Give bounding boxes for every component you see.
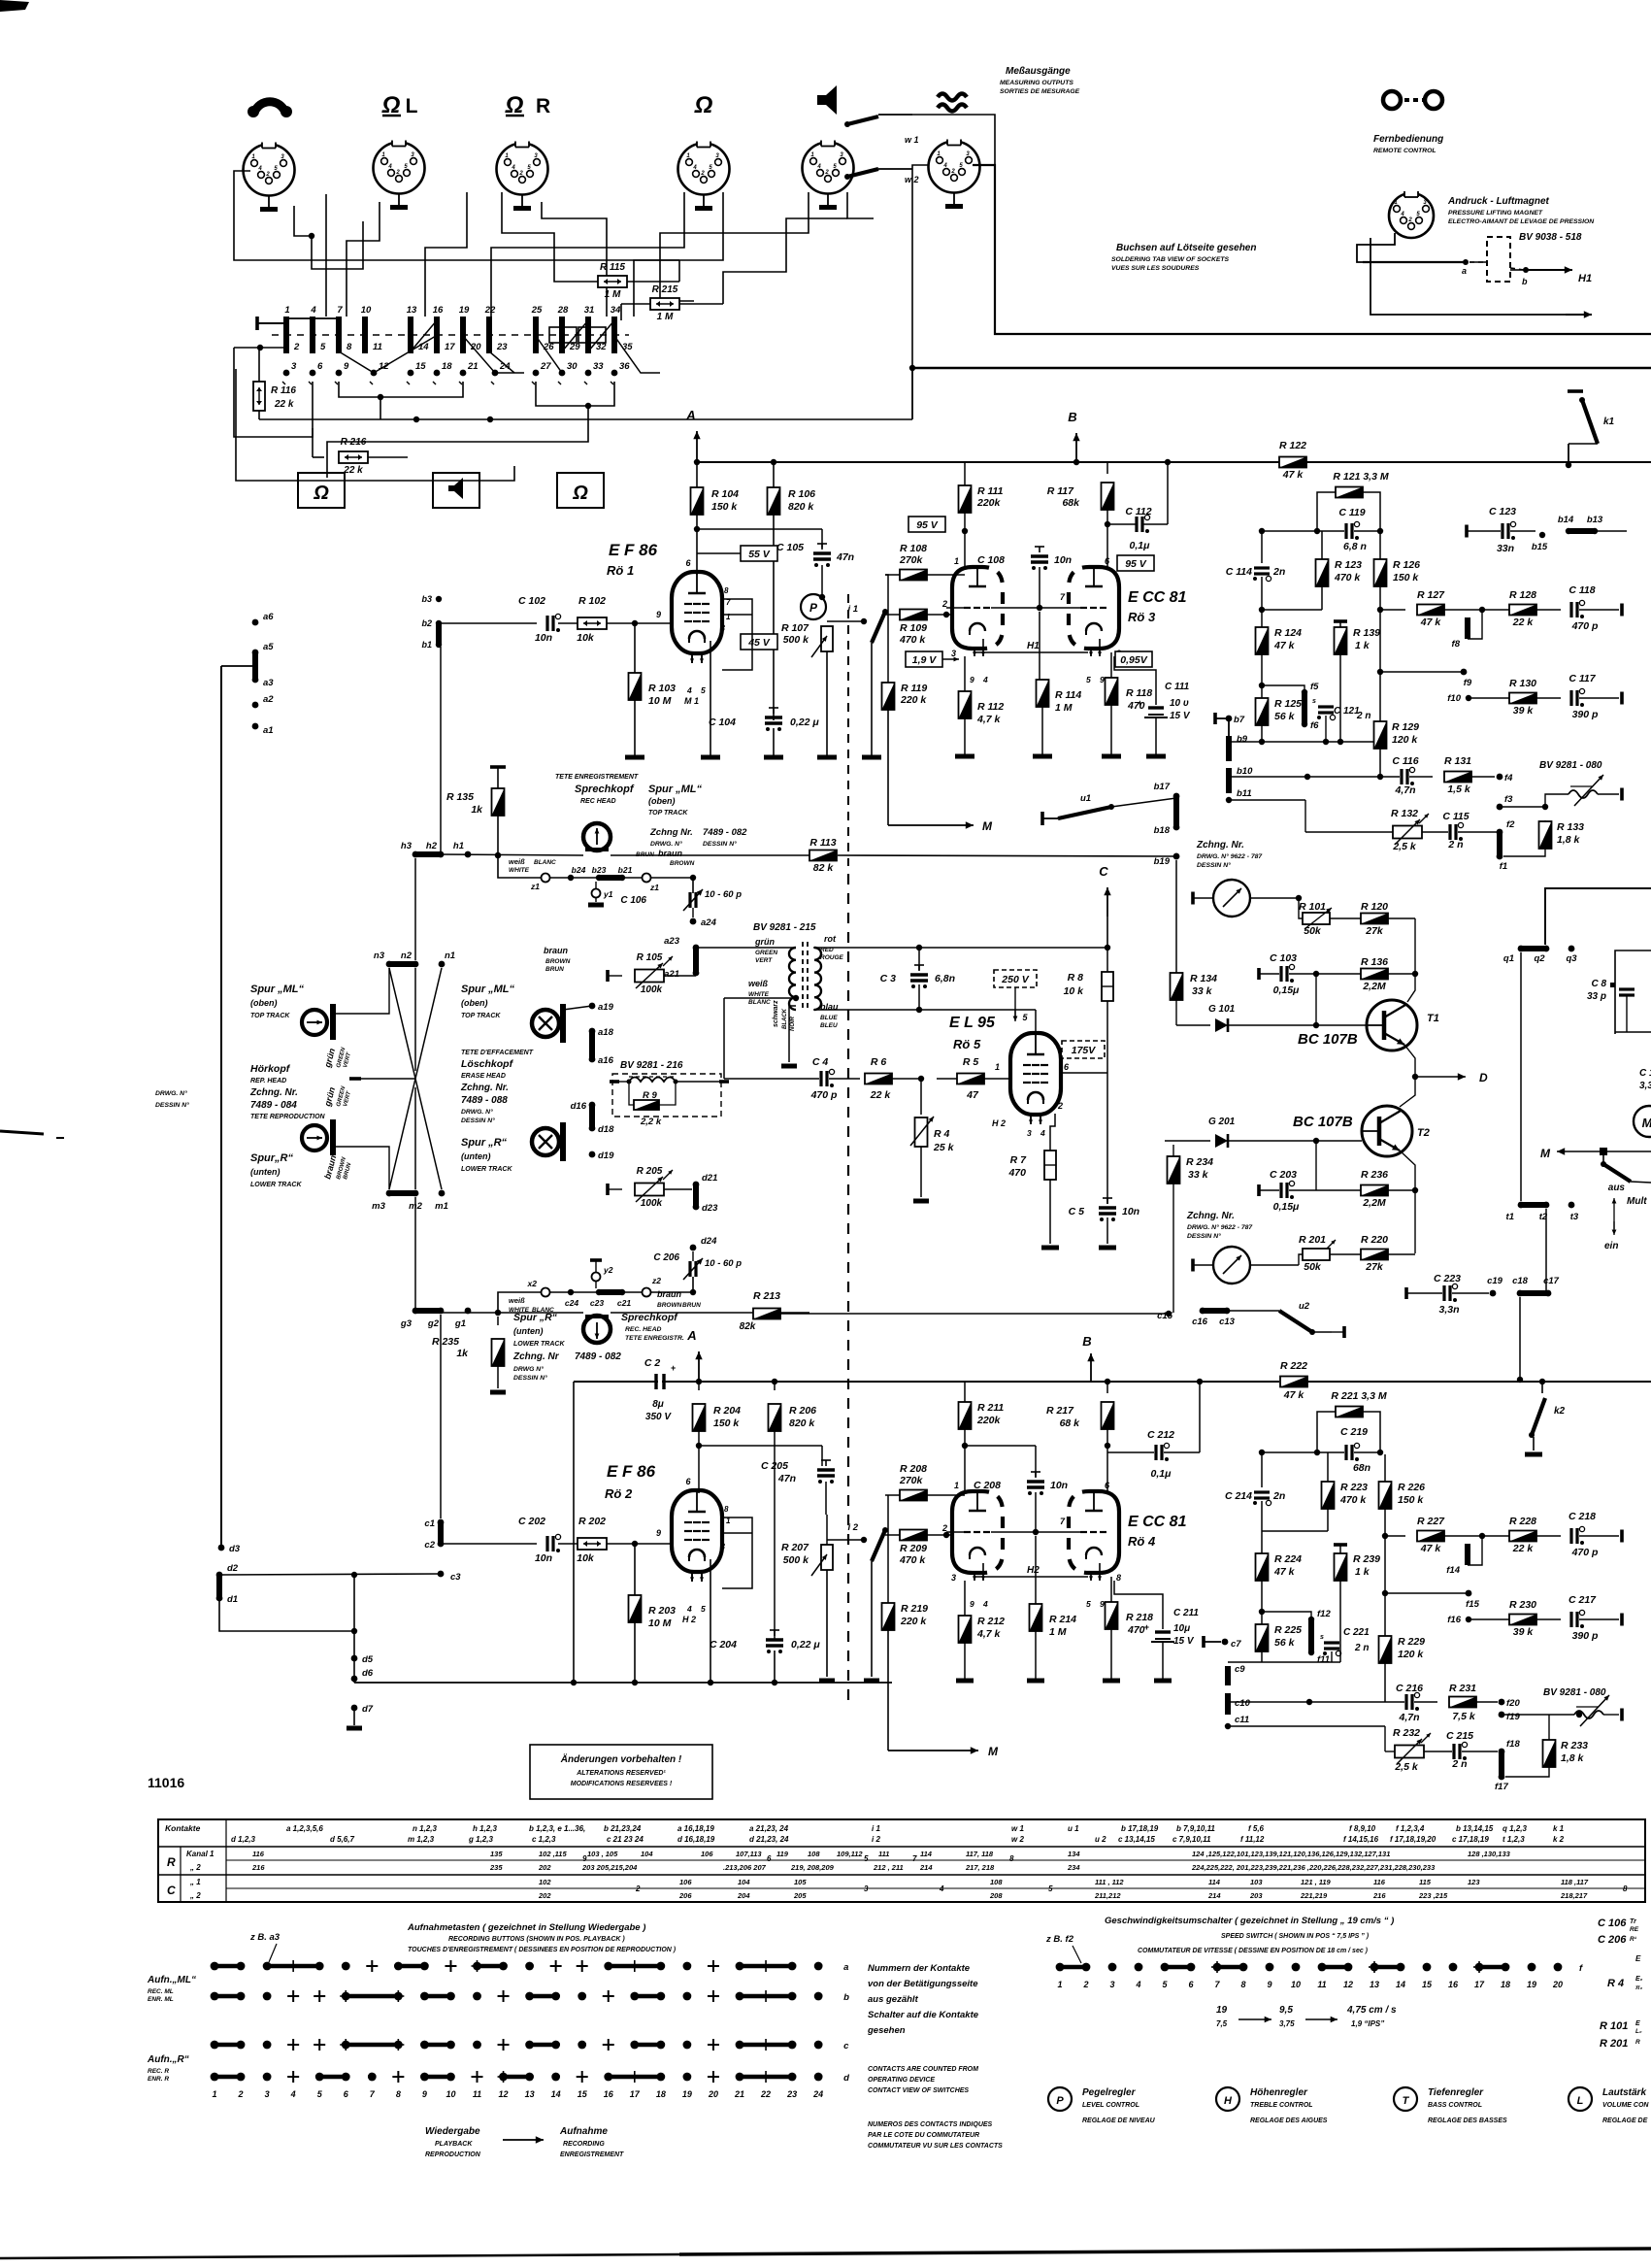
svg-text:R 120: R 120: [1361, 901, 1388, 913]
resistor R218 470: [1110, 1577, 1112, 1604]
bus anode supply lower: [574, 1381, 1279, 1383]
resistor R123 470k: [1316, 559, 1329, 586]
legend L Lautstaerke: [1568, 2087, 1592, 2111]
svg-text:E L 95: E L 95: [949, 1015, 996, 1031]
wire R233 to f17: [1505, 1767, 1549, 1777]
capacitor C3 6.8n: [918, 965, 920, 971]
svg-text:2,5 k: 2,5 k: [1392, 841, 1417, 852]
wire C2 left to vertical: [573, 1382, 575, 1683]
svg-text:28: 28: [557, 305, 569, 316]
svg-text:R 215: R 215: [652, 284, 678, 295]
svg-text:10k: 10k: [577, 632, 595, 644]
matrix contact 3: [283, 370, 290, 377]
svg-text:470 k: 470 k: [1339, 1494, 1367, 1506]
terminal b2: [436, 620, 442, 626]
svg-text:C 114: C 114: [1226, 566, 1252, 578]
svg-text:(oben): (oben): [461, 998, 488, 1008]
matrix crossing wires: [339, 351, 374, 373]
svg-text:R 212: R 212: [977, 1616, 1005, 1627]
svg-text:b3: b3: [421, 594, 432, 604]
svg-text:11: 11: [1317, 1980, 1326, 1989]
svg-text:15 V: 15 V: [1173, 1636, 1195, 1647]
svg-text:E CC 81: E CC 81: [1128, 1514, 1187, 1530]
resistor R229 120k: [1379, 1636, 1392, 1663]
svg-text:G 101: G 101: [1208, 1004, 1236, 1015]
wire C4 left net: [723, 998, 725, 1079]
svg-text:R 216: R 216: [341, 437, 367, 448]
svg-text:LOWER TRACK: LOWER TRACK: [513, 1341, 565, 1348]
svg-text:C 203: C 203: [1270, 1169, 1297, 1181]
svg-text:BROWN: BROWN: [670, 860, 695, 867]
svg-text:10μ: 10μ: [1173, 1623, 1190, 1634]
svg-text:1 k: 1 k: [1355, 640, 1370, 651]
svg-text:R 129: R 129: [1392, 721, 1419, 733]
svg-text:3: 3: [720, 623, 725, 633]
wire V3b cathode to C111: [1114, 656, 1156, 680]
terminal f6: [1302, 721, 1307, 727]
resistor R116 22k: [253, 382, 265, 411]
terminal a18: [589, 1028, 596, 1035]
svg-text:b: b: [843, 1992, 849, 2003]
svg-text:5: 5: [1086, 675, 1091, 684]
wire R211 node to C208: [965, 1445, 1036, 1447]
wire lower head line: [442, 1312, 583, 1314]
contact table frame: [158, 1819, 1645, 1902]
svg-text:h3: h3: [401, 841, 413, 851]
svg-text:u 1: u 1: [1068, 1824, 1079, 1833]
svg-text:7489 - 088: 7489 - 088: [461, 1095, 508, 1106]
wire w to mains bus: [912, 115, 995, 165]
R9 box terminals: [610, 1080, 619, 1084]
DIN socket remote control: [1389, 193, 1434, 238]
svg-text:2: 2: [1057, 1101, 1063, 1111]
svg-text:BLANC: BLANC: [748, 999, 771, 1006]
svg-text:f 11,12: f 11,12: [1240, 1835, 1265, 1844]
svg-text:R 214: R 214: [1049, 1614, 1076, 1625]
svg-text:REMOTE CONTROL: REMOTE CONTROL: [1373, 148, 1436, 154]
terminal a6: [252, 619, 259, 626]
svg-text:R 211: R 211: [977, 1402, 1004, 1414]
svg-text:2n: 2n: [1272, 566, 1285, 578]
svg-text:DRWG. N°: DRWG. N°: [461, 1108, 493, 1116]
terminal c19: [1490, 1290, 1497, 1297]
svg-text:2,2M: 2,2M: [1362, 1197, 1386, 1209]
svg-text:22 k: 22 k: [274, 399, 294, 410]
resistor R225 56k: [1256, 1624, 1269, 1651]
svg-text:9: 9: [1267, 1980, 1271, 1989]
icon telephone (TA input): [254, 102, 285, 113]
svg-text:C 206: C 206: [653, 1252, 679, 1263]
svg-text:R 204: R 204: [713, 1405, 741, 1417]
matrix contact pair 28/29: [559, 317, 565, 336]
svg-text:50k: 50k: [1304, 925, 1322, 937]
wire cathode V1: [710, 641, 711, 756]
svg-text:R 107: R 107: [781, 622, 809, 634]
potentiometer R105 100k: [606, 970, 610, 982]
icon box hp: [298, 473, 345, 508]
svg-text:R: R: [536, 95, 550, 117]
svg-text:b24: b24: [572, 865, 586, 875]
svg-text:150 k: 150 k: [1398, 1494, 1424, 1506]
svg-text:Aufn.„R“: Aufn.„R“: [147, 2054, 189, 2065]
svg-text:25: 25: [531, 305, 543, 316]
svg-text:REC. HEAD: REC. HEAD: [625, 1326, 661, 1333]
DIN socket RR: [497, 144, 548, 195]
svg-text:C 106: C 106: [620, 895, 646, 906]
svg-text:R 122: R 122: [1279, 440, 1306, 451]
svg-text:h1: h1: [453, 841, 464, 851]
svg-text:470 k: 470 k: [1334, 572, 1361, 584]
wire head line upper: [441, 854, 583, 855]
svg-text:33 k: 33 k: [1192, 985, 1213, 997]
svg-text:175V: 175V: [1072, 1045, 1097, 1056]
terminal c11: [1225, 1723, 1231, 1729]
svg-text:aus gezählt: aus gezählt: [868, 1994, 919, 2005]
terminal f5: [1302, 689, 1307, 695]
svg-text:R 230: R 230: [1509, 1599, 1536, 1611]
svg-text:R 114: R 114: [1055, 689, 1081, 701]
main horizontal bus upper: [912, 367, 1651, 369]
svg-text:22 k: 22 k: [1512, 617, 1535, 628]
svg-text:2: 2: [824, 170, 829, 176]
svg-text:R 231: R 231: [1449, 1683, 1476, 1694]
svg-text:Kontakte: Kontakte: [165, 1823, 201, 1833]
matrix contact 33: [585, 370, 592, 377]
svg-text:k1: k1: [1603, 417, 1615, 427]
svg-text:C: C: [167, 1884, 176, 1897]
svg-text:7489 - 082: 7489 - 082: [703, 827, 747, 838]
svg-text:214: 214: [1207, 1891, 1221, 1900]
svg-text:c16: c16: [1192, 1317, 1208, 1327]
svg-text:16: 16: [604, 2089, 614, 2099]
contact row b: [215, 1994, 241, 1999]
svg-text:4: 4: [1400, 212, 1404, 217]
svg-text:212 , 211: 212 , 211: [873, 1863, 904, 1872]
resistor R118 470: [1110, 652, 1112, 680]
ground C5: [1099, 1246, 1116, 1251]
terminal mid T: [349, 1077, 361, 1081]
svg-text:a 21,23, 24: a 21,23, 24: [749, 1824, 789, 1833]
terminal q1 q2 q3: [1518, 946, 1525, 952]
terminal n1: [439, 961, 446, 968]
terminal b1: [436, 642, 442, 648]
svg-text:DESSIN N°: DESSIN N°: [703, 840, 737, 848]
ground C211: [1154, 1679, 1172, 1684]
svg-text:Ω: Ω: [572, 483, 588, 504]
svg-text:BLACK: BLACK: [782, 1008, 788, 1029]
svg-text:2: 2: [950, 169, 955, 175]
wire c18 down to lower bus: [1519, 1297, 1521, 1380]
svg-text:braun: braun: [657, 1289, 682, 1299]
wire C112 up to bus: [1167, 462, 1169, 524]
wire between triodes: [991, 607, 1080, 609]
svg-text:C 211: C 211: [1173, 1608, 1199, 1618]
svg-text:BV 9281 - 080: BV 9281 - 080: [1539, 760, 1602, 771]
svg-text:47 k: 47 k: [1273, 1566, 1296, 1578]
svg-text:Zchng. Nr.: Zchng. Nr.: [460, 1083, 509, 1093]
svg-text:M: M: [1540, 1147, 1551, 1160]
legend T Tiefenregler: [1394, 2087, 1417, 2111]
svg-text:Sprechkopf: Sprechkopf: [575, 784, 635, 795]
wire t2 down to c17: [1545, 1209, 1547, 1293]
matrix contact pair 34/35: [611, 317, 617, 336]
svg-text:b17: b17: [1154, 782, 1171, 792]
svg-text:NUMEROS DES CONTACTS INDIQU: NUMEROS DES CONTACTS INDIQUES: [868, 2121, 993, 2128]
svg-text:R 4: R 4: [934, 1128, 950, 1140]
svg-text:m 1,2,3: m 1,2,3: [408, 1835, 435, 1844]
svg-text:C 217: C 217: [1568, 1594, 1597, 1606]
terminal b11: [1226, 797, 1232, 803]
svg-text:a 16,18,19: a 16,18,19: [677, 1824, 714, 1833]
triode V3a: [952, 567, 977, 649]
svg-text:13: 13: [1370, 1980, 1379, 1989]
resistor R135 1k: [490, 765, 506, 769]
svg-text:BRUN: BRUN: [545, 966, 564, 973]
svg-text:22: 22: [760, 2089, 771, 2099]
svg-text:k 1: k 1: [1553, 1824, 1565, 1833]
svg-text:3: 3: [951, 649, 956, 658]
svg-text:a: a: [843, 1962, 848, 1973]
svg-text:4: 4: [942, 163, 947, 169]
svg-text:n2: n2: [401, 951, 413, 961]
ground y1: [588, 903, 604, 908]
svg-text:470 k: 470 k: [899, 1554, 926, 1566]
svg-text:Spur „R“: Spur „R“: [513, 1312, 558, 1323]
wire R115 net: [678, 260, 680, 282]
terminal b23 b21: [596, 875, 602, 881]
wire f5 net: [1262, 685, 1304, 692]
svg-text:208: 208: [989, 1891, 1003, 1900]
svg-text:1 M: 1 M: [605, 289, 621, 300]
svg-text:220k: 220k: [976, 1415, 1002, 1426]
svg-text:0,95V: 0,95V: [1120, 654, 1147, 666]
svg-text:56 k: 56 k: [1274, 1637, 1296, 1649]
icon loudspeaker: [818, 85, 837, 115]
capacitor C111 10u 15V: [1155, 680, 1157, 705]
svg-text:9,5: 9,5: [1279, 2005, 1293, 2016]
resistor R230 39k: [1469, 1618, 1509, 1620]
right edge box partial: [1615, 951, 1651, 1034]
svg-text:B: B: [1068, 410, 1076, 424]
svg-text:95 V: 95 V: [1125, 558, 1147, 570]
svg-text:z1: z1: [530, 882, 540, 891]
wire h to n: [414, 858, 416, 960]
ring y1: [595, 882, 597, 889]
resistor R214 1M: [1035, 1536, 1037, 1606]
svg-text:Aufn.„ML“: Aufn.„ML“: [147, 1975, 196, 1985]
svg-text:a24: a24: [701, 917, 717, 928]
terminal f10: [1466, 695, 1471, 701]
svg-text:a1: a1: [263, 725, 274, 736]
svg-text:REGLAGE DES BASSES: REGLAGE DES BASSES: [1428, 2118, 1507, 2124]
resistor R106 820k: [773, 462, 775, 487]
terminal c9: [1225, 1666, 1231, 1685]
svg-text:10n: 10n: [535, 1552, 552, 1564]
svg-text:120 k: 120 k: [1398, 1649, 1424, 1660]
svg-text:108: 108: [808, 1850, 820, 1858]
matrix contact pair 16/17: [434, 317, 440, 336]
svg-text:c 7,9,10,11: c 7,9,10,11: [1172, 1835, 1211, 1844]
vertical link d rail: [353, 1575, 355, 1683]
matrix contact pair 31/32: [585, 317, 591, 336]
matrix contact 9: [336, 370, 343, 377]
svg-text:a5: a5: [263, 642, 274, 652]
svg-text:202: 202: [538, 1891, 551, 1900]
wire lower row c9: [1262, 1661, 1340, 1663]
svg-text:C 215: C 215: [1446, 1730, 1473, 1742]
terminal c13 c16: [1200, 1308, 1206, 1315]
wire grid V3a: [946, 607, 964, 609]
svg-text:22 k: 22 k: [343, 465, 363, 476]
voltage box 95V right: [1117, 555, 1154, 571]
svg-text:P: P: [1056, 2095, 1064, 2107]
svg-text:R: R: [1635, 2039, 1640, 2046]
wire meter2 to R201: [1250, 1264, 1299, 1266]
svg-text:f 1,2,3,4: f 1,2,3,4: [1396, 1824, 1425, 1833]
svg-text:d 21,23, 24: d 21,23, 24: [749, 1835, 789, 1844]
svg-text:220 k: 220 k: [900, 694, 927, 706]
svg-text:schwarz: schwarz: [773, 1000, 779, 1027]
svg-text:b 13,14,15: b 13,14,15: [1456, 1824, 1494, 1833]
svg-text:23: 23: [786, 2089, 797, 2099]
wire V4a cathode: [964, 1581, 966, 1618]
svg-text:390 p: 390 p: [1572, 709, 1599, 720]
resistor R119 220k: [882, 683, 895, 710]
svg-text:10: 10: [446, 2089, 455, 2099]
svg-text:4: 4: [387, 164, 392, 170]
matrix boxed contact 25: [549, 327, 577, 343]
contact row c: [215, 2043, 241, 2048]
svg-text:R 130: R 130: [1509, 678, 1536, 689]
svg-text:d: d: [843, 2073, 849, 2084]
svg-text:2: 2: [395, 170, 400, 176]
svg-text:103 , 105: 103 , 105: [587, 1850, 618, 1858]
svg-text:R 101: R 101: [1299, 901, 1326, 913]
capacitor C223 3.3n: [1404, 1287, 1408, 1299]
svg-text:f19: f19: [1506, 1712, 1520, 1722]
svg-text:PRESSURE LIFTING MAGNET: PRESSURE LIFTING MAGNET: [1448, 210, 1543, 217]
wire cathode V2: [710, 1559, 711, 1683]
svg-text:124 ,125,122,101,123,139,121,1: 124 ,125,122,101,123,139,121,120,136,126…: [1192, 1850, 1390, 1858]
svg-text:50k: 50k: [1304, 1261, 1322, 1273]
svg-text:BV 9038 - 518: BV 9038 - 518: [1519, 232, 1582, 243]
svg-text:1 k: 1 k: [1355, 1566, 1370, 1578]
svg-text:weiß: weiß: [509, 857, 525, 866]
resistor R104 150k: [696, 462, 698, 487]
svg-text:203 205,215,204: 203 205,215,204: [581, 1863, 638, 1872]
wire lower row b9: [1229, 741, 1380, 743]
wire erase heads to terminals: [563, 1006, 592, 1010]
potentiometer R4 25k: [920, 1079, 922, 1115]
svg-text:R 125: R 125: [1274, 698, 1302, 710]
capacitor C104 0.22u: [773, 708, 775, 714]
svg-text:c21: c21: [617, 1298, 631, 1308]
svg-text:116: 116: [1373, 1878, 1386, 1886]
svg-text:33 k: 33 k: [1188, 1169, 1209, 1181]
svg-text:L₀: L₀: [1635, 2028, 1642, 2035]
svg-text:2: 2: [238, 2089, 244, 2099]
svg-text:Ω: Ω: [313, 483, 329, 504]
svg-text:250 V: 250 V: [1001, 974, 1029, 985]
svg-text:REC HEAD: REC HEAD: [580, 798, 616, 805]
matrix contact pair 13/14: [408, 317, 413, 336]
wire m to lower head line: [414, 1197, 416, 1313]
svg-text:C 212: C 212: [1147, 1429, 1174, 1441]
svg-text:13: 13: [407, 305, 417, 316]
svg-text:ENR. R: ENR. R: [148, 2076, 169, 2083]
matrix contact pair 1/2: [283, 317, 289, 336]
svg-text:47n: 47n: [777, 1473, 796, 1484]
svg-text:8: 8: [724, 586, 729, 595]
svg-text:R 123: R 123: [1335, 559, 1362, 571]
svg-text:b14: b14: [1558, 515, 1574, 525]
resistor R217 68k: [1106, 1382, 1108, 1393]
wire T1 emitter down to D node: [1404, 1045, 1415, 1077]
svg-text:2 n: 2 n: [1447, 839, 1463, 850]
resistor R133 1.8k: [1539, 821, 1552, 849]
svg-text:R¹: R¹: [1630, 1936, 1637, 1943]
svg-text:VUES SUR LES SOUDURES: VUES SUR LES SOUDURES: [1111, 265, 1200, 272]
svg-text:9: 9: [970, 675, 974, 684]
matrix contact pair 4/5: [310, 317, 315, 336]
svg-text:R 223: R 223: [1340, 1482, 1368, 1493]
svg-text:R 239: R 239: [1353, 1553, 1380, 1565]
svg-text:115: 115: [1419, 1878, 1432, 1886]
sub wire z1 row: [495, 852, 501, 858]
svg-text:REGLAGE DE NIVEAU: REGLAGE DE NIVEAU: [1082, 2118, 1156, 2124]
svg-text:68k: 68k: [1062, 497, 1080, 509]
svg-text:d21: d21: [702, 1173, 717, 1184]
svg-text:106: 106: [679, 1878, 692, 1886]
svg-text:8: 8: [1009, 1854, 1014, 1863]
wire anode supply joint V2: [699, 1445, 822, 1447]
switch k1: [1568, 389, 1583, 393]
wire RR2: [542, 202, 607, 317]
svg-text:470 p: 470 p: [1571, 620, 1599, 632]
ground R7: [1041, 1246, 1059, 1251]
svg-text:Fernbedienung: Fernbedienung: [1373, 134, 1443, 145]
svg-text:f 8,9,10: f 8,9,10: [1349, 1824, 1376, 1833]
svg-text:8: 8: [1240, 1980, 1245, 1989]
svg-text:b23: b23: [592, 865, 607, 875]
svg-text:C 206: C 206: [1598, 1934, 1627, 1946]
svg-text:39 k: 39 k: [1513, 705, 1535, 717]
svg-text:82k: 82k: [740, 1321, 756, 1332]
svg-text:i 2: i 2: [847, 1522, 858, 1533]
erase head lower: [532, 1128, 559, 1155]
svg-text:BRUN: BRUN: [636, 851, 654, 858]
svg-text:4,7n: 4,7n: [1398, 1712, 1419, 1723]
svg-text:(unten): (unten): [250, 1167, 281, 1177]
svg-text:68 k: 68 k: [1060, 1417, 1081, 1429]
svg-text:4,7n: 4,7n: [1394, 784, 1415, 796]
svg-text:TREBLE CONTROL: TREBLE CONTROL: [1250, 2102, 1313, 2109]
svg-text:y1: y1: [603, 889, 613, 899]
svg-text:Änderungen vorbehalten !: Änderungen vorbehalten !: [560, 1752, 682, 1765]
resistor R134 33k: [1171, 973, 1183, 1000]
svg-text:f5: f5: [1310, 682, 1319, 692]
svg-text:C 117: C 117: [1568, 673, 1596, 684]
svg-text:820 k: 820 k: [788, 501, 814, 513]
svg-text:234: 234: [1067, 1863, 1080, 1872]
matrix contact 6: [310, 370, 316, 377]
svg-text:C 2: C 2: [644, 1357, 661, 1369]
svg-text:z B. f2: z B. f2: [1045, 1934, 1074, 1945]
svg-text:10k: 10k: [577, 1552, 595, 1564]
terminal c3: [438, 1571, 445, 1578]
svg-text:COMMUTATEUR DE VITESSE ( DE: COMMUTATEUR DE VITESSE ( DESSINE EN POSI…: [1138, 1948, 1369, 1954]
svg-text:π₀: π₀: [1635, 1984, 1643, 1991]
